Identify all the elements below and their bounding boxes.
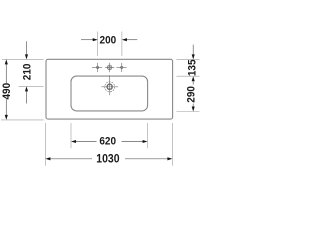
dimension 490 <box>5 64 7 116</box>
faucet hole left <box>97 66 99 68</box>
faucet holes centerline <box>92 63 127 79</box>
svg-text:490: 490 <box>0 83 13 100</box>
drain crosshair <box>101 78 118 95</box>
drain circles <box>105 82 115 92</box>
svg-text:200: 200 <box>100 34 117 47</box>
dimension 1030 <box>50 158 168 160</box>
washbasin inner bowl <box>71 76 148 111</box>
dimension 210 <box>26 41 28 103</box>
svg-text:135: 135 <box>186 59 199 76</box>
dimension 620 <box>76 141 143 143</box>
dimension 135 <box>192 45 194 55</box>
dimension 200 <box>81 39 137 41</box>
faucet hole middle <box>107 65 112 70</box>
extension lines <box>1 32 200 166</box>
dimension 290 <box>192 76 195 81</box>
faucet hole right <box>121 66 123 68</box>
svg-text:290: 290 <box>185 86 198 103</box>
svg-text:1030: 1030 <box>96 153 119 166</box>
washbasin outer rim <box>46 59 173 119</box>
svg-text:210: 210 <box>21 64 34 81</box>
svg-text:620: 620 <box>99 135 116 148</box>
